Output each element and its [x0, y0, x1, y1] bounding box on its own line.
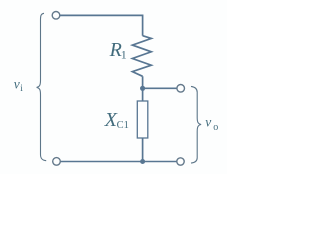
terminal bottom-left [53, 158, 61, 166]
terminal top-left [52, 12, 60, 20]
terminal right top [177, 85, 185, 93]
wire capacitor bottom to bottom node [142, 138, 144, 162]
wire resistor bottom to node [142, 76, 144, 88]
svg-text:o: o [213, 122, 218, 133]
svg-text:1: 1 [121, 47, 127, 61]
wire node to capacitor top [142, 88, 144, 101]
terminal bottom-right [177, 158, 184, 165]
brace for vo (right) [191, 86, 201, 163]
resistor R1 [132, 36, 151, 77]
svg-text:v: v [205, 114, 211, 129]
capacitor XC1 (reactance box) [137, 101, 148, 138]
svg-text:C1: C1 [117, 120, 129, 131]
wire bottom horizontal [60, 161, 177, 163]
wire top horizontal to corner and down to resistor top [60, 15, 143, 35]
brace for vi (left) [37, 13, 47, 160]
svg-text:v: v [14, 77, 20, 92]
node junction top of capacitor [140, 86, 145, 91]
svg-text:i: i [20, 84, 23, 94]
wire middle horizontal to right terminal [143, 87, 177, 89]
node junction bottom [140, 159, 145, 164]
